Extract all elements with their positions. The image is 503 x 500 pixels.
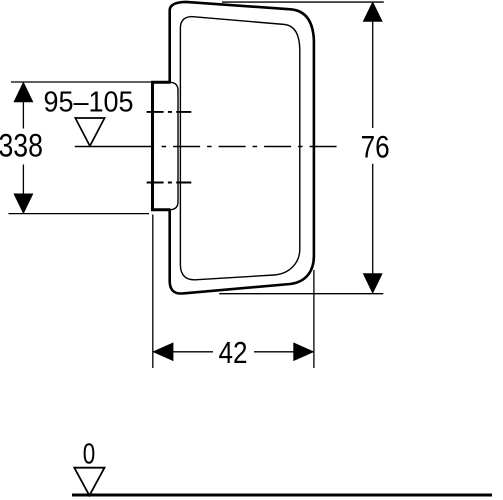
svg-text:0: 0 [83, 438, 96, 470]
svg-text:76: 76 [361, 128, 390, 164]
svg-text:338: 338 [0, 128, 43, 164]
dim 338 ext bottom [9, 213, 150, 215]
cistern inner contour [180, 17, 299, 280]
dim 42 arrow right [294, 343, 314, 360]
dim 338 ext top [11, 81, 151, 83]
dim 76 ext top [222, 1, 384, 3]
cistern outer contour [170, 2, 314, 294]
bolt axis upper [147, 111, 192, 113]
wall bracket right edge [170, 82, 179, 210]
dim 76 arrow up [364, 2, 382, 21]
wall bracket fill [153, 82, 179, 210]
svg-text:42: 42 [219, 335, 248, 370]
svg-text:95–105: 95–105 [44, 86, 134, 118]
dim 76 arrow down [364, 274, 382, 293]
dim 338 line [22, 84, 24, 213]
zero level triangle [74, 468, 104, 496]
dim 42 line [154, 351, 314, 353]
water level triangle [75, 118, 104, 146]
floor line [72, 494, 492, 497]
center line [155, 146, 341, 148]
dim 42 ext right [313, 270, 315, 368]
dim 338 arrow down [14, 194, 32, 213]
dim 42 arrow left [153, 343, 173, 360]
dim 76 line [372, 3, 374, 293]
dim 42 ext left [152, 215, 154, 369]
dim 76 ext bottom [219, 293, 383, 295]
wall bracket outline [153, 82, 171, 210]
bolt axis lower [147, 182, 192, 184]
dim 338 arrow up [14, 83, 32, 102]
water level line [75, 146, 153, 148]
